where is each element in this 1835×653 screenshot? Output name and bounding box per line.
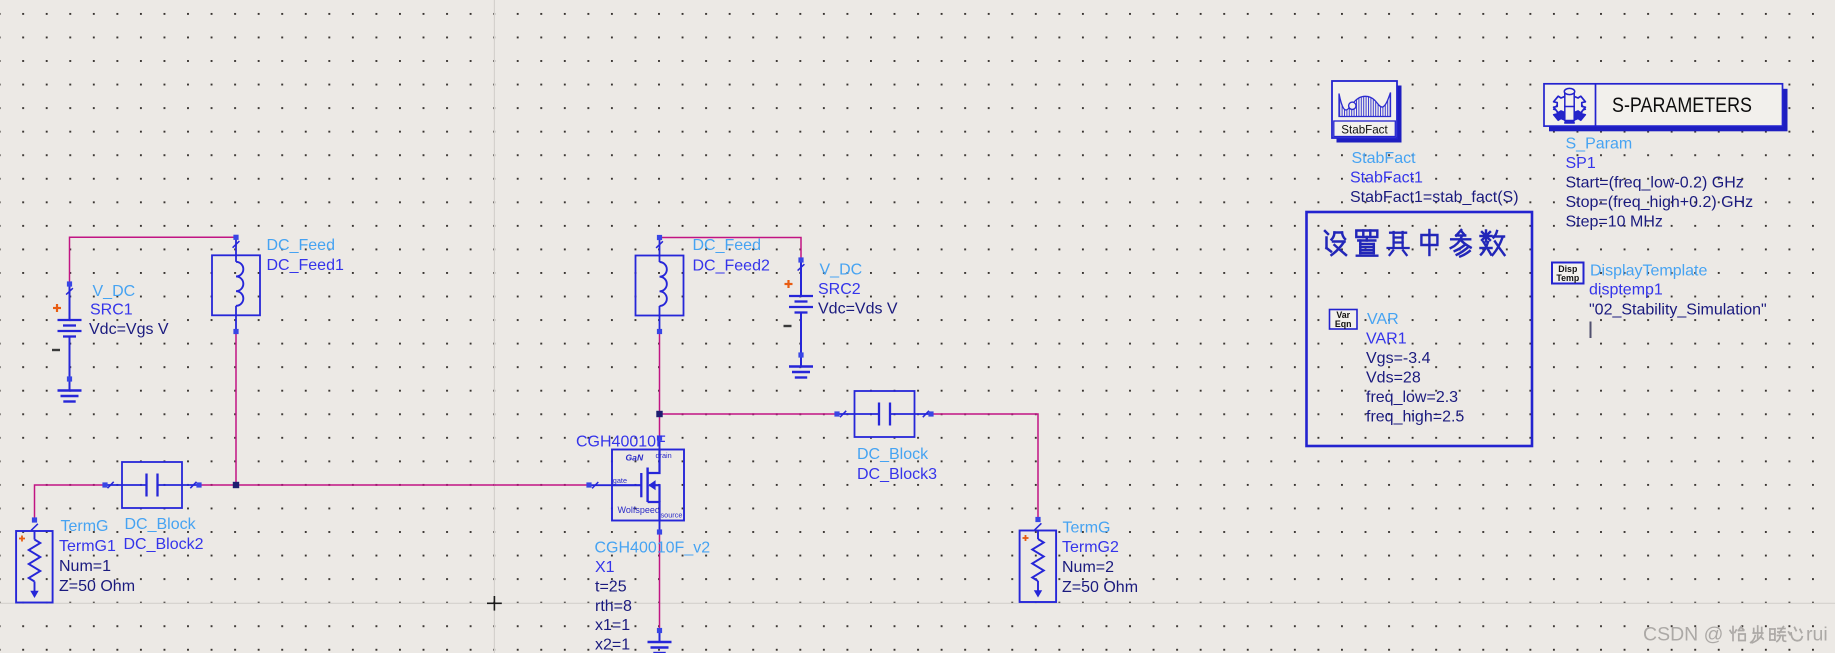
junction node gate net <box>233 482 239 488</box>
svg-text:Start=(freq_low-0.2) GHz: Start=(freq_low-0.2) GHz <box>1566 175 1744 192</box>
svg-text:TermG1: TermG1 <box>59 538 116 555</box>
voltage source V_DC SRC1 <box>52 284 82 379</box>
svg-text:Vdc=Vgs V: Vdc=Vgs V <box>89 321 169 338</box>
wire DC_Feed1 down to gate net <box>235 332 237 486</box>
svg-text:Num=1: Num=1 <box>59 558 111 575</box>
svg-text:drain: drain <box>656 451 672 460</box>
svg-text:source: source <box>661 511 683 520</box>
svg-text:SRC2: SRC2 <box>818 281 861 298</box>
svg-text:Step=10 MHz: Step=10 MHz <box>1566 214 1663 231</box>
svg-text:Z=50 Ohm: Z=50 Ohm <box>59 578 135 595</box>
svg-text:CGH40010F: CGH40010F <box>576 434 666 451</box>
text cursor <box>1590 322 1592 339</box>
svg-text:DC_Feed2: DC_Feed2 <box>693 257 770 274</box>
voltage source V_DC SRC2 <box>784 260 814 355</box>
chinese annotation 设置其中参数 <box>1325 230 1505 257</box>
svg-text:Vds=28: Vds=28 <box>1366 370 1421 387</box>
svg-text:StabFact1: StabFact1 <box>1350 170 1423 187</box>
wire DC_Feed2 top to SRC2 <box>660 238 802 261</box>
svg-text:x2=1: x2=1 <box>595 637 630 653</box>
svg-text:TermG2: TermG2 <box>1062 539 1119 556</box>
svg-text:TermG: TermG <box>1063 519 1111 536</box>
wire junction to gate <box>236 484 589 486</box>
svg-text:DC_Block2: DC_Block2 <box>124 536 204 553</box>
wire drain junction to DC_Block3 <box>660 413 838 415</box>
svg-text:S-PARAMETERS: S-PARAMETERS <box>1612 93 1752 117</box>
svg-text:CSDN @: CSDN @ <box>1643 624 1723 646</box>
svg-text:Z=50 Ohm: Z=50 Ohm <box>1062 579 1138 596</box>
svg-text:rui: rui <box>1806 624 1828 646</box>
wire drain junction up to DC_Feed2 <box>659 332 661 415</box>
svg-text:StabFact: StabFact <box>1352 150 1417 167</box>
node squares (pin connections) <box>32 235 1041 633</box>
capacitor DC_Block3 <box>838 391 932 437</box>
svg-text:DC_Block: DC_Block <box>857 446 929 463</box>
svg-text:StabFact: StabFact <box>1341 123 1388 136</box>
ground below SRC1 <box>58 379 82 402</box>
svg-text:V_DC: V_DC <box>820 262 863 279</box>
wire DC_Block3 to TermG2 <box>931 414 1038 520</box>
capacitor DC_Block2 <box>105 462 199 508</box>
ground below SRC2 <box>789 355 813 378</box>
svg-text:DC_Feed1: DC_Feed1 <box>267 257 344 274</box>
svg-text:SP1: SP1 <box>1566 155 1596 172</box>
svg-text:VAR: VAR <box>1367 311 1399 328</box>
transistor X1 CGH40010F <box>589 438 684 532</box>
svg-text:TermG: TermG <box>61 518 109 535</box>
svg-text:Vgs=-3.4: Vgs=-3.4 <box>1366 350 1431 367</box>
svg-text:Num=2: Num=2 <box>1062 559 1114 576</box>
svg-text:S_Param: S_Param <box>1566 136 1633 153</box>
svg-text:gate: gate <box>613 476 627 485</box>
inductor DC_Feed1 <box>212 237 260 331</box>
svg-text:DisplayTemplate: DisplayTemplate <box>1590 263 1707 280</box>
svg-text:Eqn: Eqn <box>1335 319 1352 329</box>
VAR icon VarEqn <box>1330 310 1358 330</box>
DisplayTemplate icon DispTemp <box>1552 263 1584 284</box>
svg-text:t=25: t=25 <box>595 578 627 595</box>
svg-text:"02_Stability_Simulation": "02_Stability_Simulation" <box>1589 301 1767 318</box>
wire drain pin up <box>659 414 661 438</box>
inductor DC_Feed2 <box>636 238 684 332</box>
svg-text:CGH40010F_v2: CGH40010F_v2 <box>595 540 711 557</box>
wire TermG1 up to DC_Block2 <box>35 485 106 520</box>
svg-text:disptemp1: disptemp1 <box>1589 281 1663 298</box>
svg-text:DC_Block3: DC_Block3 <box>857 466 937 483</box>
junction node drain net <box>656 411 662 417</box>
port TermG1 <box>16 524 53 603</box>
wire transistor source to ground <box>659 532 661 631</box>
svg-text:freq_low=2.3: freq_low=2.3 <box>1366 389 1458 406</box>
svg-text:X1: X1 <box>595 559 615 576</box>
svg-text:DC_Block: DC_Block <box>125 516 197 533</box>
svg-text:rth=8: rth=8 <box>595 598 632 615</box>
svg-text:freq_high=2.5: freq_high=2.5 <box>1366 409 1464 426</box>
VAR parameter box <box>1307 212 1533 446</box>
port TermG2 <box>1020 523 1057 602</box>
svg-text:StabFact1=stab_fact(S): StabFact1=stab_fact(S) <box>1350 189 1519 206</box>
wire SRC1 top to DC_Feed1 <box>70 237 237 284</box>
svg-text:V_DC: V_DC <box>93 283 136 300</box>
measurement icon StabFact <box>1332 81 1402 143</box>
wire DC_Block2 to junction <box>199 484 236 486</box>
svg-text:Stop=(freq_high+0.2) GHz: Stop=(freq_high+0.2) GHz <box>1566 194 1754 211</box>
simulation controller S-PARAMETERS box <box>1544 84 1788 132</box>
svg-text:DC_Feed: DC_Feed <box>267 237 335 254</box>
svg-text:Vdc=Vds V: Vdc=Vds V <box>818 301 898 318</box>
svg-text:GaN: GaN <box>626 453 644 463</box>
svg-text:Wolfspeed: Wolfspeed <box>618 505 660 515</box>
svg-text:Temp: Temp <box>1556 273 1579 283</box>
svg-text:SRC1: SRC1 <box>90 302 133 319</box>
svg-text:x1=1: x1=1 <box>595 617 630 634</box>
svg-text:DC_Feed: DC_Feed <box>693 237 761 254</box>
svg-text:VAR1: VAR1 <box>1366 331 1407 348</box>
gear icon in S-PARAMETERS box <box>1554 88 1586 123</box>
ground below transistor source <box>648 631 672 653</box>
